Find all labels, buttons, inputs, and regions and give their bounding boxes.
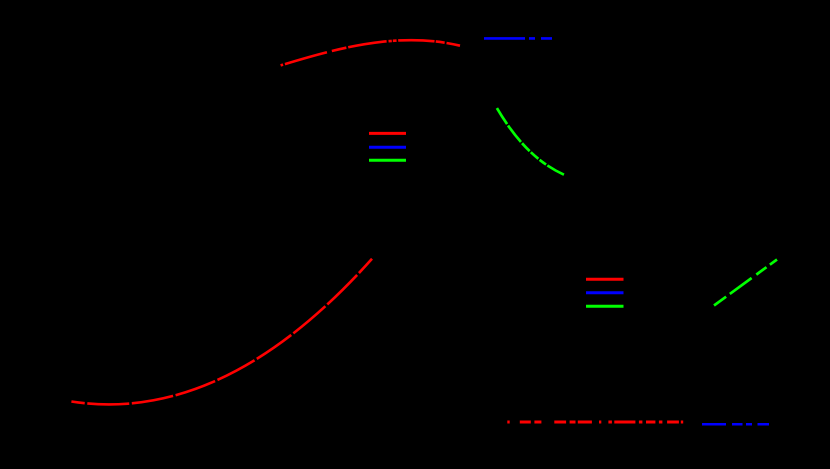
- legend 2 green sample: [586, 305, 624, 308]
- curve red rising (bottom left): [71, 259, 372, 405]
- legend 2 red sample: [586, 278, 624, 281]
- legend 1 red sample: [369, 132, 406, 135]
- curve blue dashed (bottom right): [702, 423, 769, 426]
- curve red dash-dot (bottom right): [507, 421, 683, 424]
- curve green rising (right plot): [714, 260, 777, 306]
- curve blue flat (top): [484, 37, 552, 40]
- curve red arc (left plot, top): [281, 40, 460, 65]
- legend 1 green sample: [369, 159, 406, 162]
- legend 2 blue sample: [586, 291, 624, 294]
- curve green falling (left plot): [497, 108, 565, 175]
- legend 1 blue sample: [369, 146, 406, 149]
